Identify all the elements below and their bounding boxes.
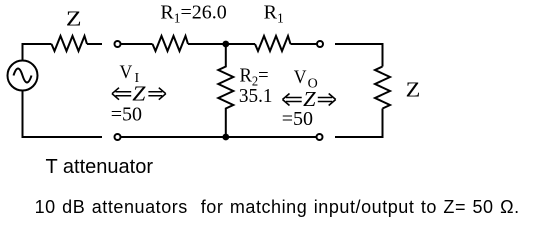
- terminal: input top: [115, 41, 121, 47]
- svg-text:10 dB attenuators for matchin: 10 dB attenuators for matching input/out…: [35, 197, 520, 217]
- wire: node A to output R1: [226, 43, 255, 45]
- terminal: input bottom: [115, 134, 121, 140]
- AC source V1: [8, 61, 38, 91]
- resistor Z load (vertical): [375, 67, 390, 109]
- arrow right-out (output impedance): [318, 94, 336, 106]
- label Z (output impedance, italic): [303, 88, 316, 111]
- wire: output R1 to output terminal: [291, 43, 318, 45]
- svg-text:T attenuator: T attenuator: [46, 156, 154, 178]
- wire: Z to input terminal: [87, 43, 102, 45]
- junction node A (top): [222, 41, 229, 48]
- resistor R1 series input: [153, 36, 189, 51]
- resistor R1 series output: [255, 36, 291, 51]
- wire: R1 to node A: [188, 43, 226, 45]
- arrow right-out (input impedance): [148, 88, 165, 100]
- wire: bottom left to source: [23, 91, 103, 137]
- arrow left-in (output impedance): [283, 94, 302, 106]
- terminal: output bottom: [317, 134, 323, 140]
- label Z (load): [406, 78, 421, 102]
- resistor R2 shunt (vertical): [218, 44, 233, 137]
- svg-text:V: V: [120, 61, 133, 82]
- arrow left-in (input impedance): [112, 88, 131, 100]
- label VI: [120, 61, 133, 82]
- label Z (input impedance, italic): [132, 82, 146, 105]
- svg-text:V: V: [294, 66, 307, 87]
- svg-text:=50: =50: [282, 108, 313, 130]
- svg-text:35.1: 35.1: [239, 85, 273, 106]
- terminal: output top: [317, 41, 323, 47]
- wire: source top to resistor Z: [23, 44, 52, 61]
- label Z (series input): [66, 8, 82, 31]
- label R2=: [240, 65, 269, 89]
- svg-text:R1=26.0: R1=26.0: [160, 1, 226, 25]
- junction node B (bottom): [222, 134, 229, 141]
- label VO: [294, 66, 307, 87]
- resistor Z (series input): [52, 36, 88, 51]
- svg-text:Z: Z: [132, 82, 146, 105]
- wire: load Z to bottom right corner: [335, 109, 383, 138]
- wire: output bottom terminal to node B: [226, 136, 317, 138]
- svg-text:Z: Z: [406, 78, 421, 102]
- wire: node B to input bottom terminal: [121, 136, 226, 138]
- wire: input terminal to R1: [121, 43, 153, 45]
- svg-text:R1: R1: [264, 1, 284, 25]
- svg-text:Z: Z: [66, 8, 82, 31]
- label 35.1: [239, 85, 273, 106]
- svg-text:=50: =50: [111, 103, 142, 125]
- wire: output terminal to load Z: [335, 44, 383, 67]
